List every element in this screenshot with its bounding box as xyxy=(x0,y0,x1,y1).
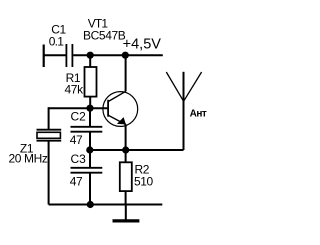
svg-text:47: 47 xyxy=(70,133,83,147)
svg-text:20 MHz: 20 MHz xyxy=(9,152,48,166)
svg-text:C2: C2 xyxy=(71,110,87,124)
svg-text:Ант: Ант xyxy=(190,108,207,119)
svg-text:C3: C3 xyxy=(71,152,87,166)
svg-text:0.1: 0.1 xyxy=(49,35,65,49)
svg-text:+4,5V: +4,5V xyxy=(123,37,162,53)
svg-text:47k: 47k xyxy=(65,83,85,97)
svg-text:510: 510 xyxy=(134,175,154,189)
svg-text:47: 47 xyxy=(70,175,83,189)
svg-text:BC547B: BC547B xyxy=(83,29,126,43)
